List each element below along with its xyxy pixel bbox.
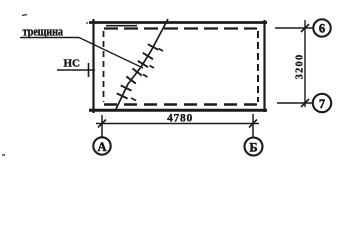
scan speck near wall corner [86,22,88,24]
crack tick half dash d [159,49,164,52]
crack tick 1 [117,93,128,98]
crack line [116,19,168,109]
bottom dimension tick left [98,120,106,128]
svg-text:3200: 3200 [295,54,306,80]
right dimension tick top [301,24,309,32]
wall outline right [263,20,265,112]
crack tick half dash b [143,75,148,78]
leader underline for label трещина [20,37,79,39]
svg-text:4780: 4780 [167,113,193,125]
axis B extension line [252,114,254,137]
axis 7 extension line [277,102,312,104]
axis 7 circle [313,94,331,112]
crack tick half dash c [150,66,155,69]
leader slanted segment [79,38,143,69]
crack tick 4 [132,68,142,75]
bottom dimension line 4780 [96,123,259,125]
crack tick 3 [126,76,136,83]
svg-text:6: 6 [319,22,325,36]
axis A circle [93,137,110,154]
svg-text:Б: Б [249,141,257,155]
axis 6 circle [313,19,330,36]
wall outline top [89,21,267,24]
svg-text:трещина: трещина [23,24,64,38]
axis B circle [245,138,263,156]
bottom dimension tick right [249,120,257,128]
axis A extension line [101,115,103,137]
НС reference tick [88,63,90,77]
right dimension tick bottom [301,99,309,107]
right dimension line 3200 [304,20,306,107]
crack tick 6 [143,53,153,59]
inner dashed contour bottom [104,103,257,105]
scan speck top left [22,15,27,16]
scan speck bottom left [2,154,5,156]
crack tick 7 [148,44,159,50]
wall outline left [92,19,94,113]
inner dashed contour top [104,27,257,29]
wall outline bottom [89,109,267,112]
НС reference underline [57,69,95,71]
inner dashed contour right [257,31,259,102]
axis 6 extension line [275,27,313,29]
svg-text:7: 7 [319,97,325,111]
inner dashed contour left [103,31,105,102]
svg-text:А: А [97,140,106,154]
crack tick 2 [121,85,132,90]
crack tick half dash a [131,98,136,101]
crack tick 5 [138,61,148,67]
doubled stroke under top edge [106,25,137,27]
svg-text:НС: НС [64,58,81,70]
